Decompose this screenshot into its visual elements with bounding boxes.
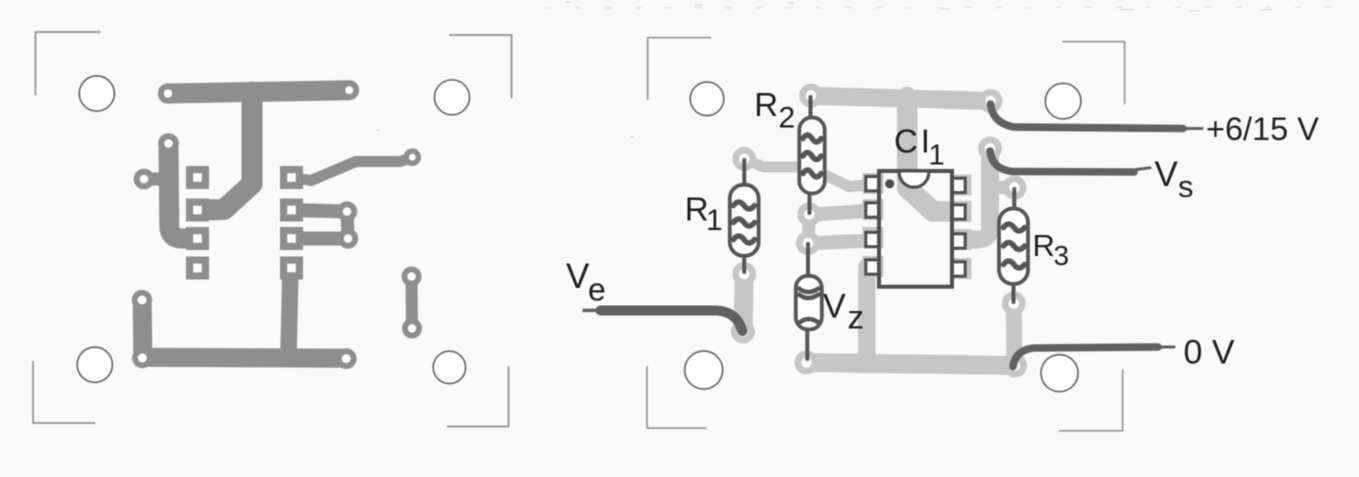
wire Ve xyxy=(601,311,743,332)
corner mark top-left xyxy=(648,38,711,100)
resistor R1 xyxy=(730,160,759,272)
pad P10 xyxy=(336,348,357,369)
pad P8 xyxy=(132,290,152,310)
pad Vz bottom xyxy=(795,351,819,375)
IC pins left xyxy=(866,177,879,275)
corner mark bottom-right xyxy=(448,367,509,427)
svg-text:C: C xyxy=(894,123,918,160)
pad P3 xyxy=(158,133,179,154)
svg-text:+6/15 V: +6/15 V xyxy=(1206,111,1319,147)
pad CI1 pin 5 xyxy=(951,258,972,279)
pad IC pin 3 square xyxy=(280,227,303,250)
svg-text:e: e xyxy=(588,271,606,307)
pad +6/15V wire xyxy=(979,89,1003,113)
trace branch to pin4L xyxy=(858,267,876,362)
pad P1 xyxy=(158,83,178,103)
trace bottom bar xyxy=(807,363,1015,366)
pad R3 bottom xyxy=(1002,292,1026,316)
pad P5 xyxy=(404,148,422,166)
wire P6-P7 link xyxy=(347,212,348,239)
mounting hole top-left xyxy=(690,82,724,116)
trace R2bot-Vztop link xyxy=(808,214,809,243)
mounting hole bottom-left xyxy=(685,351,723,389)
wire P4 stub xyxy=(144,173,170,186)
pad IC pin 5 square xyxy=(186,257,209,280)
svg-text:V: V xyxy=(1155,155,1179,194)
trace top bar xyxy=(811,96,991,101)
pad CI1 pin 3 xyxy=(863,227,884,248)
pad R1 top xyxy=(732,147,756,171)
wire +6/15V xyxy=(991,104,1184,129)
mounting hole top-right xyxy=(435,80,470,115)
pad R1 bottom xyxy=(732,262,756,286)
IC body xyxy=(879,171,952,287)
wire dumbbell P11-P12 xyxy=(406,277,419,329)
svg-text:V: V xyxy=(823,288,846,326)
wire trunk to pin7 xyxy=(199,92,252,210)
corner mark bottom-left xyxy=(647,367,706,428)
trace R1 dumbbell xyxy=(743,274,744,332)
pad P4 xyxy=(134,169,155,190)
svg-text:z: z xyxy=(848,298,865,335)
resistor R3 xyxy=(999,189,1028,302)
svg-text:1: 1 xyxy=(706,204,723,237)
IC notch xyxy=(899,173,929,188)
pad 0V wire xyxy=(1003,354,1027,378)
trace pin3L to Vz top xyxy=(808,241,873,244)
mounting hole bottom-left xyxy=(77,347,112,382)
resistor R2 xyxy=(799,97,824,213)
wire 0V xyxy=(1013,347,1158,367)
mounting hole top-right xyxy=(1045,83,1081,119)
corner mark bottom-left xyxy=(33,362,95,423)
svg-text:1: 1 xyxy=(929,140,945,172)
pad Ve wire xyxy=(731,320,755,344)
corner mark top-right xyxy=(450,35,512,98)
zener Vz xyxy=(796,244,822,359)
wire Vs xyxy=(990,151,1134,172)
pad IC pin 1 square xyxy=(280,166,303,189)
mounting hole bottom-right xyxy=(433,351,465,383)
pad Vz top xyxy=(796,231,820,255)
pad CI1 pin 7 xyxy=(951,201,972,222)
pad P7 xyxy=(338,228,358,248)
pad CI1 pin 4 xyxy=(863,256,884,277)
pad R3 top xyxy=(1003,176,1027,200)
pad IC pin 2 square xyxy=(280,199,303,222)
svg-text:R: R xyxy=(1033,228,1055,263)
trace R3 bottom down xyxy=(1006,304,1023,366)
mounting hole top-left xyxy=(79,76,114,111)
pad CI1 pin 8 xyxy=(951,175,972,196)
pad P2 xyxy=(339,80,359,100)
pad R2 top / node +6-15V xyxy=(799,84,823,108)
pad P9 xyxy=(132,348,152,368)
corner mark bottom-right xyxy=(1060,370,1123,430)
trace trunk to pin2R xyxy=(907,97,959,212)
pad IC pin 4 square xyxy=(280,257,303,280)
corner mark top-right xyxy=(1063,42,1125,104)
trace R3 stub xyxy=(990,181,1015,195)
wire branch bar to pin4 xyxy=(289,268,291,354)
trace Vs pad down to pin3R xyxy=(959,150,990,240)
pad P12 xyxy=(402,319,422,339)
pad P6 xyxy=(337,201,357,221)
wire pin8 to P5 xyxy=(292,158,413,181)
svg-text:0 V: 0 V xyxy=(1184,333,1235,371)
pad CI1 pin 6 xyxy=(951,229,972,250)
pad IC pin 7 square xyxy=(186,199,209,222)
pad R2 bottom xyxy=(797,202,821,226)
wire top bar P1-P2 xyxy=(168,90,349,93)
svg-text:2: 2 xyxy=(779,102,796,135)
mounting hole bottom-right xyxy=(1041,355,1078,392)
pad IC pin 6 square xyxy=(186,227,209,250)
IC pin1 dot xyxy=(885,179,894,188)
wire bottom L bar P8-P9-P10 xyxy=(142,300,346,359)
corner mark top-left xyxy=(36,32,101,95)
svg-text:V: V xyxy=(566,257,590,296)
trace pin1L to R1 top xyxy=(744,159,873,186)
pad CI1 pin 2 xyxy=(863,199,884,220)
wire pin2 to P6 xyxy=(292,210,348,212)
pad P11 xyxy=(402,267,422,287)
IC pins right xyxy=(952,178,965,276)
svg-text:s: s xyxy=(1178,169,1194,204)
svg-text:3: 3 xyxy=(1054,240,1070,271)
svg-text:R: R xyxy=(754,86,778,123)
pad Vs wire xyxy=(978,137,1002,161)
wire P3 down to pin6 xyxy=(169,144,198,239)
trace pin2L to R2 bottom xyxy=(809,211,873,215)
wire pin3 to P7 xyxy=(292,232,349,246)
op-amp IC CI1 xyxy=(866,171,965,287)
wires dark xyxy=(584,104,1202,367)
pad IC pin 8 square xyxy=(186,166,209,189)
pad CI1 pin 1 xyxy=(863,173,884,194)
